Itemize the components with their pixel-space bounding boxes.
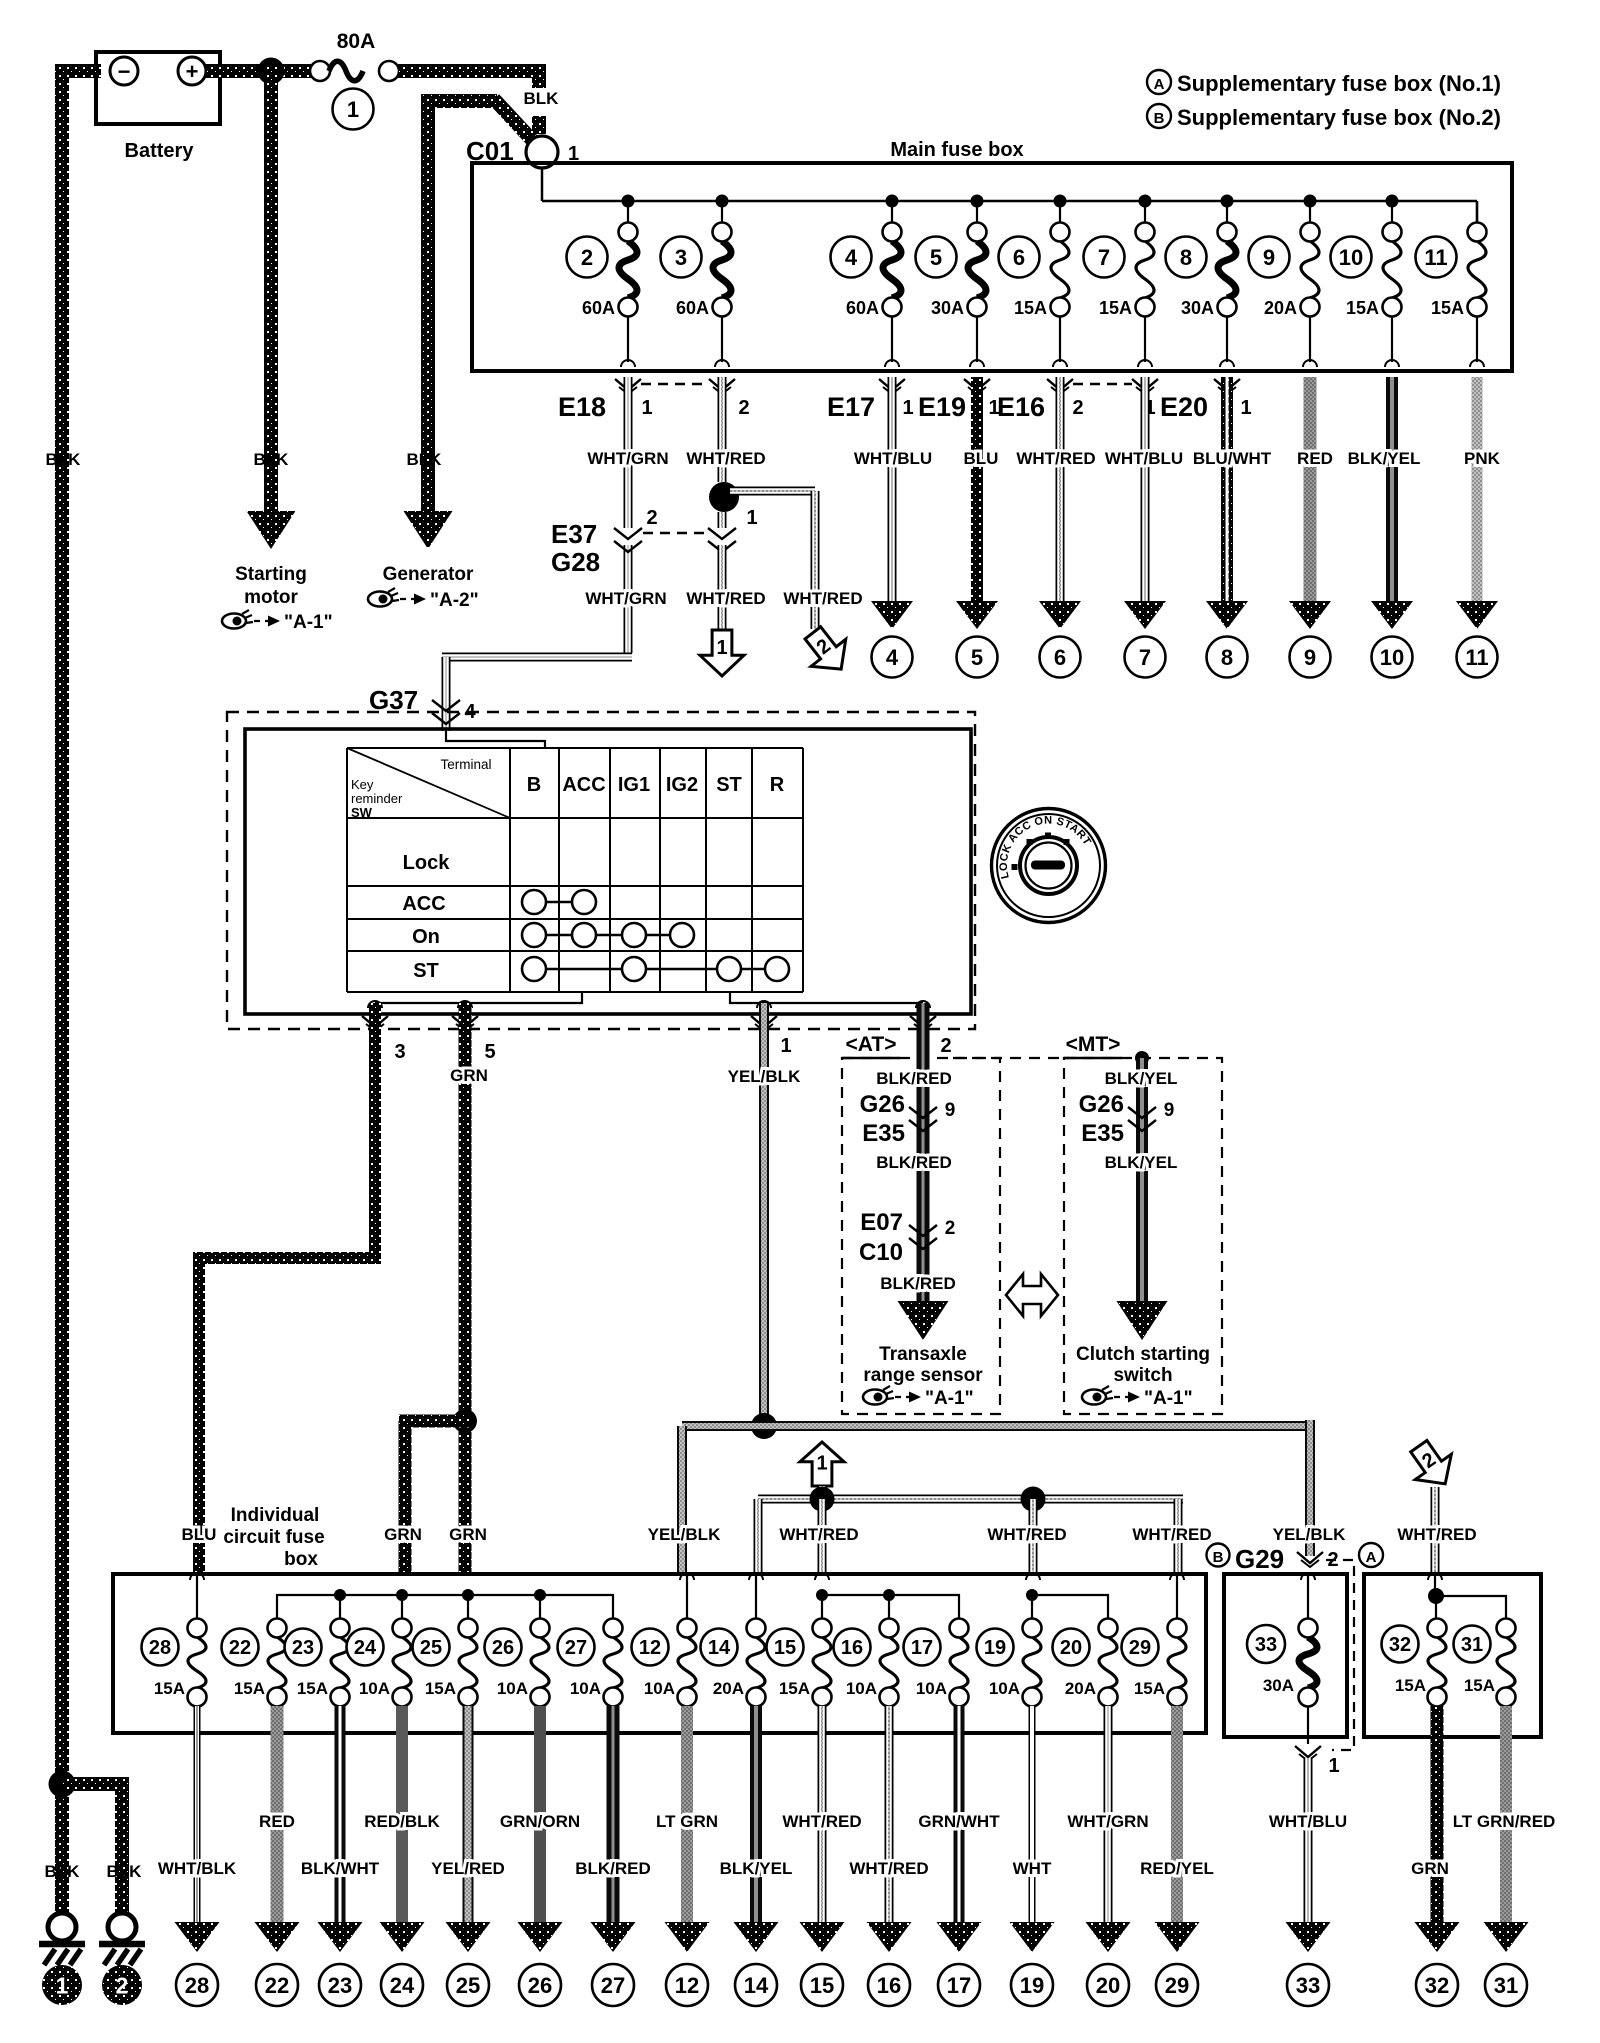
svg-text:RED/YEL: RED/YEL — [1140, 1859, 1214, 1878]
svg-text:WHT/BLU: WHT/BLU — [1105, 449, 1183, 468]
output wire LT GRN/RED from fuse 31 — [1453, 1706, 1556, 1952]
bus junction dots — [622, 195, 1399, 208]
label BLK ground 1 — [45, 1862, 81, 1881]
wire ground branch BLK — [62, 1784, 129, 1914]
wire WHT/RED drop fuse19 — [1029, 1499, 1038, 1576]
fuse 25 (15A) in individual box — [413, 1619, 478, 1707]
label GRN (fuse25) — [449, 1525, 487, 1544]
svg-text:GRN: GRN — [384, 1525, 422, 1544]
output wire WHT/RED from fuse 15 — [782, 1706, 861, 1952]
svg-text:15A: 15A — [1431, 298, 1464, 318]
svg-text:IG1: IG1 — [618, 774, 650, 796]
wire WHT/RED lower bus — [758, 1486, 1183, 1576]
svg-text:60A: 60A — [676, 298, 709, 318]
svg-text:G26: G26 — [1079, 1091, 1124, 1118]
label Starting motor — [235, 564, 307, 608]
fuse 31 (15A) — [1454, 1619, 1516, 1707]
wire branch to starting motor BLK — [264, 64, 278, 512]
svg-text:E18: E18 — [558, 392, 606, 422]
svg-text:WHT/RED: WHT/RED — [686, 589, 765, 608]
svg-text:9: 9 — [1304, 645, 1316, 670]
svg-text:26: 26 — [528, 1973, 552, 1998]
fuse 14 (20A) in individual box — [701, 1619, 766, 1707]
svg-text:reminder: reminder — [351, 791, 403, 806]
label BLK (C01 wire) — [524, 89, 560, 108]
svg-text:33: 33 — [1296, 1973, 1320, 1998]
G29 pin 1 — [1295, 1746, 1340, 1777]
svg-text:B: B — [1154, 110, 1165, 127]
svg-text:31: 31 — [1494, 1973, 1518, 1998]
fuse box bus (fuses 22-27) — [277, 1589, 613, 1619]
fuse 24 (10A) in individual box — [347, 1619, 412, 1707]
wire from fuse 7 with arrow — [1124, 377, 1166, 629]
svg-text:BLK: BLK — [45, 1862, 81, 1881]
wire WHT/RED drop fuse15 — [818, 1499, 827, 1576]
svg-text:12: 12 — [675, 1973, 699, 1998]
svg-text:WHT/RED: WHT/RED — [849, 1859, 928, 1878]
svg-text:BLU: BLU — [964, 449, 999, 468]
svg-text:2: 2 — [581, 245, 593, 270]
svg-text:WHT/RED: WHT/RED — [1397, 1525, 1476, 1544]
G29 connector dashed bracket — [1326, 1560, 1354, 1750]
svg-text:2: 2 — [116, 1972, 129, 1998]
svg-text:GRN/WHT: GRN/WHT — [918, 1812, 1000, 1831]
ignition key face graphic — [992, 809, 1106, 923]
svg-text:1: 1 — [716, 637, 727, 659]
svg-text:LT GRN: LT GRN — [656, 1812, 718, 1831]
svg-text:28: 28 — [185, 1973, 209, 1998]
ignition switch contact circles — [522, 890, 789, 981]
output wire BLK/YEL from fuse 14 — [720, 1706, 793, 1952]
fuse 32 (15A) — [1382, 1619, 1447, 1707]
svg-text:17: 17 — [947, 1973, 971, 1998]
wire from fuse 5 with arrow — [956, 377, 998, 629]
svg-text:Supplementary fuse box (No.1): Supplementary fuse box (No.1) — [1177, 71, 1501, 96]
svg-text:2: 2 — [945, 1218, 956, 1239]
svg-text:24: 24 — [390, 1973, 415, 1998]
wire battery positive BLK — [206, 64, 319, 78]
wire GRN ignition pin5 to fuse box — [459, 1003, 472, 1576]
svg-text:Clutch starting: Clutch starting — [1076, 1344, 1210, 1365]
output wire BLK/WHT from fuse 23 — [301, 1706, 380, 1952]
svg-text:Supplementary fuse box (No.2): Supplementary fuse box (No.2) — [1177, 105, 1501, 130]
wire WHT/GRN fuse2 to ignition switch — [442, 377, 632, 731]
ignition pin 2 — [910, 1001, 952, 1057]
svg-text:Lock: Lock — [403, 852, 451, 874]
junction WHT/RED — [709, 482, 739, 512]
main fuse box outline — [472, 139, 1512, 371]
svg-text:RED: RED — [1297, 449, 1333, 468]
connector G26/E35 (MT) pin 9 — [1079, 1091, 1175, 1147]
svg-text:15A: 15A — [1134, 1679, 1165, 1698]
ignition switch terminal table — [347, 748, 803, 992]
svg-text:E07: E07 — [860, 1209, 903, 1236]
svg-text:G29: G29 — [1235, 1544, 1284, 1574]
fuse 5 (30A) in main fuse box — [916, 201, 987, 367]
junction dot MT wire top — [1135, 1051, 1149, 1065]
label GRN (fuse24) — [384, 1525, 422, 1544]
output wire WHT/BLU from fuse 33 — [1269, 1758, 1347, 1952]
svg-text:9: 9 — [1263, 245, 1275, 270]
svg-text:11: 11 — [1424, 245, 1447, 270]
svg-text:5: 5 — [971, 645, 983, 670]
wire BLU ignition pin3 to fuse 28 — [193, 1003, 381, 1576]
wire from fuse 8 with arrow — [1206, 377, 1248, 629]
svg-text:20A: 20A — [1264, 298, 1297, 318]
see-ref A-1 starting motor — [222, 610, 333, 633]
fuse 17 (10A) in individual box — [904, 1619, 969, 1707]
svg-text:33: 33 — [1255, 1634, 1277, 1656]
wire from fuse 10 with arrow — [1371, 377, 1413, 629]
svg-text:G37: G37 — [369, 685, 418, 715]
label YEL/BLK (fuse12) — [648, 1525, 721, 1544]
svg-text:C10: C10 — [859, 1239, 903, 1266]
fuse 3 (60A) in main fuse box — [661, 201, 732, 367]
label BLU (fuse28) — [182, 1525, 217, 1544]
svg-text:2: 2 — [940, 1035, 951, 1057]
svg-text:BLU/WHT: BLU/WHT — [1193, 449, 1272, 468]
label Generator — [383, 564, 474, 585]
svg-text:YEL/BLK: YEL/BLK — [1273, 1525, 1346, 1544]
G29 labels — [1207, 1543, 1384, 1574]
svg-text:BLK/YEL: BLK/YEL — [1105, 1069, 1178, 1088]
svg-text:7: 7 — [1098, 245, 1110, 270]
fuse 19 (10A) in individual box — [977, 1619, 1042, 1707]
svg-text:BLK/YEL: BLK/YEL — [1348, 449, 1421, 468]
output wire GRN/WHT from fuse 17 — [918, 1706, 1000, 1952]
fuse 22 (15A) in individual box — [222, 1619, 287, 1707]
label BLK/RED 2 — [876, 1153, 952, 1172]
ground symbol 1 — [39, 1913, 85, 1965]
svg-text:SW: SW — [351, 805, 373, 820]
svg-text:32: 32 — [1425, 1973, 1449, 1998]
svg-text:Individual: Individual — [231, 1505, 320, 1526]
label BLK/YEL 1 — [1105, 1069, 1178, 1088]
svg-text:WHT: WHT — [1013, 1859, 1052, 1878]
svg-text:15A: 15A — [1014, 298, 1047, 318]
svg-text:BLK/YEL: BLK/YEL — [1105, 1153, 1178, 1172]
svg-text:PNK: PNK — [1464, 449, 1501, 468]
svg-text:Key: Key — [351, 777, 374, 792]
fuse 12 (10A) in individual box — [632, 1619, 697, 1707]
svg-text:15A: 15A — [234, 1679, 265, 1698]
svg-text:23: 23 — [292, 1637, 314, 1659]
svg-text:2: 2 — [738, 397, 749, 419]
svg-text:YEL/BLK: YEL/BLK — [728, 1067, 801, 1086]
connector E17 pin 1 — [827, 379, 914, 422]
svg-text:R: R — [770, 774, 785, 796]
svg-text:15A: 15A — [1464, 1676, 1495, 1695]
svg-text:Transaxle: Transaxle — [879, 1344, 967, 1365]
G29 fuse box outline — [1224, 1574, 1347, 1737]
output wire WHT/RED from fuse 16 — [849, 1706, 928, 1952]
svg-text:E16: E16 — [997, 392, 1045, 422]
connector E19 pin 1 — [918, 379, 1000, 422]
svg-text:1: 1 — [902, 397, 913, 419]
label BLK (battery ground wire) — [46, 450, 82, 469]
label WHT/RED (below E37) — [686, 589, 765, 608]
svg-text:WHT/RED: WHT/RED — [1132, 1525, 1211, 1544]
svg-text:1: 1 — [780, 1035, 791, 1057]
svg-text:G28: G28 — [551, 547, 600, 577]
label BLK/YEL 2 — [1105, 1153, 1178, 1172]
svg-text:ST: ST — [413, 960, 439, 982]
ignition switch output routing — [375, 992, 923, 1003]
svg-text:1: 1 — [347, 97, 359, 122]
wire WHT/RED fuse3 down — [718, 377, 727, 630]
svg-text:29: 29 — [1129, 1637, 1151, 1659]
svg-text:22: 22 — [265, 1973, 289, 1998]
junction WHT/RED bus right — [1021, 1487, 1046, 1512]
svg-text:BLK/RED: BLK/RED — [880, 1274, 956, 1293]
svg-text:11: 11 — [1465, 645, 1488, 670]
svg-text:Battery: Battery — [125, 140, 195, 162]
svg-text:10A: 10A — [570, 1679, 601, 1698]
label AT — [842, 1033, 900, 1058]
connector E37/G28 — [551, 507, 758, 577]
svg-text:G26: G26 — [860, 1091, 905, 1118]
arrow to transaxle range sensor — [898, 1301, 949, 1340]
svg-text:WHT/RED: WHT/RED — [987, 1525, 1066, 1544]
hollow arrow 2 (to box A) — [1401, 1434, 1463, 1497]
circled outputs 4-11 — [872, 637, 1498, 678]
svg-text:GRN: GRN — [449, 1525, 487, 1544]
svg-text:E35: E35 — [862, 1120, 905, 1147]
svg-text:15A: 15A — [1395, 1676, 1426, 1695]
fuse 7 (15A) in main fuse box — [1084, 201, 1155, 367]
see-ref A-2 generator — [368, 588, 479, 611]
label BLK ground 2 — [107, 1862, 143, 1881]
label Individual circuit fuse box — [223, 1505, 324, 1570]
svg-text:WHT/BLU: WHT/BLU — [854, 449, 932, 468]
wire YEL/BLK ignition pin1 down — [759, 1003, 769, 1426]
svg-text:5: 5 — [484, 1041, 495, 1063]
svg-text:WHT/RED: WHT/RED — [783, 589, 862, 608]
svg-text:−: − — [118, 59, 131, 84]
svg-text:24: 24 — [354, 1637, 377, 1659]
output wire RED from fuse 22 — [255, 1706, 300, 1952]
svg-text:10: 10 — [1380, 645, 1404, 670]
label WHT/RED (fuse29) — [1132, 1525, 1211, 1544]
supplementary box A outline — [1364, 1574, 1541, 1737]
circled bottom numbers — [176, 1964, 1527, 2006]
label WHT/RED (fuse15) — [779, 1525, 858, 1544]
svg-text:"A-1": "A-1" — [1144, 1388, 1193, 1409]
ignition switch feed line — [446, 729, 545, 748]
svg-text:Main fuse box: Main fuse box — [890, 139, 1023, 161]
svg-text:box: box — [284, 1549, 318, 1570]
svg-text:14: 14 — [744, 1973, 769, 1998]
supplementary legend A — [1147, 70, 1501, 96]
svg-text:GRN: GRN — [1411, 1859, 1449, 1878]
svg-text:BLU: BLU — [182, 1525, 217, 1544]
dashed link pin2 to MT — [953, 1057, 1064, 1059]
svg-text:15A: 15A — [779, 1679, 810, 1698]
svg-text:9: 9 — [945, 1100, 956, 1121]
ignition pin 3 — [362, 1001, 406, 1063]
svg-text:WHT/RED: WHT/RED — [782, 1812, 861, 1831]
junction YEL/BLK — [751, 1413, 777, 1439]
ignition pin 1 — [751, 1001, 792, 1057]
junction ground branch — [49, 1771, 76, 1798]
svg-text:20A: 20A — [1065, 1679, 1096, 1698]
svg-text:30A: 30A — [1263, 1676, 1294, 1695]
ignition pin 5 — [452, 1001, 496, 1063]
label circled 1 (80A fuse) — [333, 89, 374, 130]
svg-text:E35: E35 — [1081, 1120, 1124, 1147]
main fuse box bus wire — [542, 168, 1477, 222]
svg-text:E17: E17 — [827, 392, 875, 422]
supplementary legend B — [1147, 104, 1501, 130]
svg-text:16: 16 — [877, 1973, 901, 1998]
label GRN (pin5) — [450, 1066, 488, 1085]
svg-text:5: 5 — [930, 245, 942, 270]
hollow arrow 1 (from upper WHT/RED) — [800, 1442, 844, 1486]
connector E07/C10 pin 2 — [859, 1209, 955, 1266]
box A feed — [1428, 1573, 1506, 1619]
svg-text:2: 2 — [1072, 397, 1083, 419]
hollow arrow 2 (to supplementary box A) — [796, 619, 859, 682]
fuse box bus (fuses 19-20) — [1026, 1589, 1108, 1619]
fuse feeds direct — [190, 1573, 1184, 1619]
MT dashed box — [1064, 1058, 1222, 1414]
fuse 11 (15A) in main fuse box — [1416, 201, 1487, 367]
svg-text:ACC: ACC — [402, 893, 445, 915]
svg-text:RED/BLK: RED/BLK — [364, 1812, 440, 1831]
label Transaxle range sensor — [863, 1344, 983, 1386]
svg-text:10A: 10A — [916, 1679, 947, 1698]
svg-text:19: 19 — [1020, 1973, 1044, 1998]
output wire YEL/RED from fuse 25 — [431, 1706, 505, 1952]
wire YEL/BLK horizontal — [682, 1420, 1315, 1576]
svg-text:1: 1 — [746, 507, 757, 529]
svg-text:IG2: IG2 — [666, 774, 698, 796]
fuse 8 (30A) in main fuse box — [1166, 201, 1237, 367]
svg-text:BLK: BLK — [254, 450, 290, 469]
svg-text:ACC: ACC — [562, 774, 605, 796]
wire BLK/YEL to clutch switch — [1136, 1058, 1148, 1301]
svg-text:30A: 30A — [1181, 298, 1214, 318]
svg-text:LT GRN/RED: LT GRN/RED — [1453, 1812, 1556, 1831]
svg-text:10A: 10A — [497, 1679, 528, 1698]
svg-text:1: 1 — [1328, 1755, 1339, 1777]
svg-text:WHT/GRN: WHT/GRN — [585, 589, 666, 608]
svg-text:20A: 20A — [713, 1679, 744, 1698]
svg-text:8: 8 — [1221, 645, 1233, 670]
svg-text:26: 26 — [492, 1637, 514, 1659]
svg-text:25: 25 — [420, 1637, 442, 1659]
svg-text:WHT/RED: WHT/RED — [686, 449, 765, 468]
label YEL/BLK (pin1) — [728, 1067, 801, 1086]
fuse 80A main fuse 1 — [310, 30, 399, 81]
svg-text:15A: 15A — [154, 1679, 185, 1698]
junction battery positive — [258, 58, 285, 85]
svg-text:A: A — [1366, 1549, 1377, 1566]
hollow arrow 1 (to lower WHT/RED bus) — [700, 630, 744, 676]
arrow to generator — [404, 511, 453, 549]
svg-text:3: 3 — [675, 245, 687, 270]
svg-text:range sensor: range sensor — [863, 1365, 983, 1386]
svg-text:YEL/RED: YEL/RED — [431, 1859, 505, 1878]
svg-text:1: 1 — [816, 1452, 827, 1474]
svg-text:E20: E20 — [1160, 392, 1208, 422]
connector G26/E35 (AT) pin 9 — [860, 1091, 956, 1147]
wire BLK/RED ignition pin2 to sensor — [917, 1003, 930, 1301]
svg-text:17: 17 — [911, 1637, 933, 1659]
fuse 16 (10A) in individual box — [834, 1619, 899, 1707]
svg-text:4: 4 — [886, 645, 899, 670]
svg-text:E19: E19 — [918, 392, 966, 422]
label WHT/GRN (below E37) — [585, 589, 666, 608]
svg-text:BLK/WHT: BLK/WHT — [301, 1859, 380, 1878]
svg-text:BLK/RED: BLK/RED — [575, 1859, 651, 1878]
svg-text:27: 27 — [565, 1637, 587, 1659]
svg-text:ST: ST — [716, 774, 742, 796]
output wire WHT from fuse 19 — [1010, 1706, 1055, 1952]
svg-text:"A-1": "A-1" — [284, 612, 333, 633]
connector C01 — [466, 136, 579, 168]
svg-text:YEL/BLK: YEL/BLK — [648, 1525, 721, 1544]
fuse 10 (15A) in main fuse box — [1331, 201, 1402, 367]
fuse box bus (fuses 15-17) — [816, 1589, 959, 1619]
svg-text:motor: motor — [244, 587, 298, 608]
svg-text:Terminal: Terminal — [440, 757, 491, 772]
connector G37 pin 4 — [369, 685, 476, 724]
svg-text:22: 22 — [229, 1637, 251, 1659]
svg-text:20: 20 — [1096, 1973, 1120, 1998]
wire GRN branch — [399, 1421, 471, 1576]
wire color labels below main fuse box — [587, 449, 1500, 468]
output wire WHT/GRN from fuse 20 — [1067, 1706, 1148, 1952]
fuse 6 (15A) in main fuse box — [999, 201, 1070, 367]
fuse 15 (15A) in individual box — [767, 1619, 832, 1707]
svg-text:10: 10 — [1339, 245, 1363, 270]
svg-text:15: 15 — [774, 1637, 796, 1659]
output wire BLK/RED from fuse 27 — [575, 1706, 651, 1952]
svg-text:7: 7 — [1139, 645, 1151, 670]
see-ref A-1 clutch — [1082, 1386, 1193, 1409]
svg-text:2: 2 — [646, 507, 657, 529]
fuse 33 (30A) — [1247, 1573, 1318, 1744]
svg-text:23: 23 — [328, 1973, 352, 1998]
svg-text:BLK/YEL: BLK/YEL — [720, 1859, 793, 1878]
svg-text:BLK: BLK — [524, 89, 560, 108]
fuse 27 (10A) in individual box — [558, 1619, 623, 1707]
wire from fuse 6 with arrow — [1039, 377, 1081, 629]
svg-text:9: 9 — [1164, 1100, 1175, 1121]
wire battery negative BLK — [55, 64, 101, 1914]
svg-text:60A: 60A — [582, 298, 615, 318]
svg-text:Starting: Starting — [235, 564, 307, 585]
label YEL/BLK (fuse33) — [1273, 1525, 1346, 1544]
svg-text:14: 14 — [708, 1637, 731, 1659]
svg-text:6: 6 — [1013, 245, 1025, 270]
label Clutch starting switch — [1076, 1344, 1210, 1386]
svg-text:<MT>: <MT> — [1066, 1033, 1121, 1056]
svg-text:10A: 10A — [989, 1679, 1020, 1698]
fuse 23 (15A) in individual box — [285, 1619, 350, 1707]
svg-text:28: 28 — [149, 1637, 171, 1659]
wire generator branch BLK — [421, 95, 533, 512]
filled circle 2 — [102, 1965, 142, 2005]
svg-text:29: 29 — [1165, 1973, 1189, 1998]
svg-text:16: 16 — [841, 1637, 863, 1659]
svg-text:1: 1 — [56, 1972, 69, 1998]
ground symbol 2 — [99, 1913, 145, 1965]
arrow to clutch starting switch — [1117, 1301, 1168, 1340]
svg-text:6: 6 — [1054, 645, 1066, 670]
wire WHT/RED branch right — [730, 491, 815, 629]
